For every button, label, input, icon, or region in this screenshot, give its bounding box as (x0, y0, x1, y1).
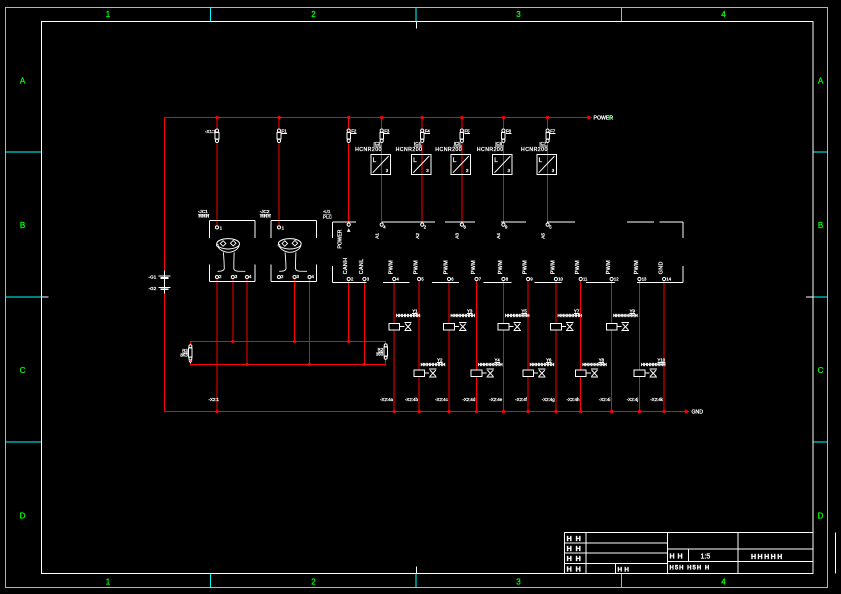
svg-text:HHH: HHH (199, 214, 210, 219)
svg-text:1:5: 1:5 (701, 554, 711, 561)
svg-text:IC7: IC7 (539, 141, 546, 146)
svg-text:-X2:4f: -X2:4f (515, 397, 527, 402)
svg-text:-X2:4d: -X2:4d (462, 397, 475, 402)
svg-text:4: 4 (721, 10, 726, 19)
svg-text:A2: A2 (415, 233, 420, 239)
svg-text:HCNR200: HCNR200 (521, 147, 548, 153)
svg-text:HHHHHHHH: HHHHHHHH (421, 362, 446, 367)
svg-text:-X2:4k: -X2:4k (650, 397, 663, 402)
svg-text:HHHHHHHH: HHHHHHHH (396, 313, 421, 318)
svg-text:PWM: PWM (523, 260, 529, 274)
svg-text:-X2:4b: -X2:4b (405, 397, 418, 402)
svg-text:F2: F2 (351, 128, 357, 133)
svg-text:D: D (818, 512, 824, 521)
svg-text:C: C (20, 366, 26, 375)
svg-text:D: D (20, 512, 26, 521)
svg-text:H5H H5H H: H5H H5H H (670, 565, 711, 571)
svg-text:GND: GND (659, 261, 665, 274)
svg-text:PWM: PWM (389, 260, 395, 274)
svg-text:HH: HH (567, 534, 585, 543)
svg-text:3K3: 3K3 (180, 352, 188, 357)
svg-text:HHHHHHHH: HHHHHHHH (505, 313, 530, 318)
svg-text:B: B (20, 221, 25, 230)
svg-text:10: 10 (558, 277, 563, 282)
svg-text:L: L (539, 157, 543, 164)
svg-text:A3: A3 (455, 233, 460, 239)
svg-text:-X2:4j: -X2:4j (627, 397, 638, 402)
svg-text:-X2:4c: -X2:4c (435, 397, 448, 402)
svg-text:A4: A4 (496, 233, 501, 239)
svg-text:IC3: IC3 (374, 141, 381, 146)
svg-text:IC6: IC6 (495, 141, 502, 146)
svg-text:-X1:1: -X1:1 (205, 129, 216, 134)
svg-text:HHHHHHHH: HHHHHHHH (557, 313, 582, 318)
svg-text:HH: HH (567, 565, 585, 574)
svg-text:HH: HH (567, 544, 585, 553)
svg-text:HCNR200: HCNR200 (477, 147, 504, 153)
svg-text:IC4: IC4 (414, 141, 421, 146)
svg-text:PWM: PWM (575, 260, 581, 274)
svg-text:IC5: IC5 (454, 141, 461, 146)
svg-text:F5: F5 (464, 128, 470, 133)
svg-text:13: 13 (642, 277, 647, 282)
svg-text:-X2:4h: -X2:4h (567, 397, 580, 402)
svg-text:F4: F4 (425, 128, 431, 133)
svg-text:HHHHHHHH: HHHHHHHH (478, 362, 503, 367)
svg-text:-X2:4i: -X2:4i (599, 397, 610, 402)
svg-text:A5: A5 (540, 233, 545, 239)
svg-text:HCNR200: HCNR200 (355, 147, 382, 153)
svg-text:PWM: PWM (550, 260, 556, 274)
svg-text:PWM: PWM (471, 260, 477, 274)
svg-text:3: 3 (516, 578, 521, 587)
svg-text:PWM: PWM (498, 260, 504, 274)
svg-text:HHHHHHHH: HHHHHHHH (530, 362, 555, 367)
svg-text:PLC: PLC (323, 215, 333, 220)
svg-text:HHHHHHHH: HHHHHHHH (451, 313, 476, 318)
svg-text:HH: HH (567, 554, 585, 563)
svg-text:-X2:1: -X2:1 (209, 397, 220, 402)
svg-text:1: 1 (106, 578, 111, 587)
svg-text:F3: F3 (384, 128, 390, 133)
svg-text:PWM: PWM (444, 260, 450, 274)
svg-text:F1: F1 (282, 128, 288, 133)
svg-text:POWER: POWER (337, 229, 343, 248)
svg-text:HHHHHHHH: HHHHHHHH (582, 362, 607, 367)
svg-text:C: C (818, 366, 824, 375)
svg-text:A: A (818, 77, 824, 86)
svg-text:F7: F7 (550, 128, 556, 133)
svg-text:2: 2 (311, 578, 316, 587)
svg-text:12: 12 (614, 277, 619, 282)
svg-text:HCNR200: HCNR200 (435, 147, 462, 153)
svg-text:L: L (453, 157, 457, 164)
svg-text:-G1: -G1 (149, 275, 157, 280)
svg-text:HCNR200: HCNR200 (396, 147, 423, 153)
svg-text:X: X (608, 115, 611, 120)
svg-text:PWM: PWM (606, 260, 612, 274)
svg-text:PWM: PWM (414, 260, 420, 274)
svg-text:HHHHHHHH: HHHHHHHH (613, 313, 638, 318)
svg-text:-X2:4a: -X2:4a (380, 397, 393, 402)
svg-text:L: L (373, 157, 377, 164)
svg-text:HHH: HHH (260, 214, 271, 219)
svg-text:-U1: -U1 (323, 209, 331, 214)
svg-text:CANH: CANH (343, 258, 349, 275)
svg-text:A1: A1 (375, 233, 380, 239)
svg-text:B: B (818, 221, 823, 230)
svg-text:CANL: CANL (359, 259, 365, 275)
svg-text:4: 4 (721, 578, 726, 587)
svg-text:HHHHH: HHHHH (751, 554, 784, 561)
svg-text:1: 1 (106, 10, 111, 19)
svg-text:PWM: PWM (634, 260, 640, 274)
svg-text:-X2:4e: -X2:4e (489, 397, 502, 402)
svg-text:F6: F6 (506, 128, 512, 133)
svg-text:HHHHHHHH: HHHHHHHH (641, 362, 666, 367)
svg-text:-G2: -G2 (149, 286, 157, 291)
svg-text:HH: HH (618, 567, 631, 574)
svg-text:L: L (413, 157, 417, 164)
svg-text:360: 360 (376, 352, 384, 357)
svg-text:L: L (494, 157, 498, 164)
svg-text:HH: HH (670, 554, 686, 561)
svg-text:GND: GND (692, 410, 704, 416)
svg-text:2: 2 (311, 10, 316, 19)
svg-text:3: 3 (516, 10, 521, 19)
svg-text:11: 11 (583, 277, 588, 282)
svg-text:A: A (20, 77, 26, 86)
svg-text:14: 14 (666, 277, 671, 282)
svg-text:-X2:4g: -X2:4g (542, 397, 555, 402)
